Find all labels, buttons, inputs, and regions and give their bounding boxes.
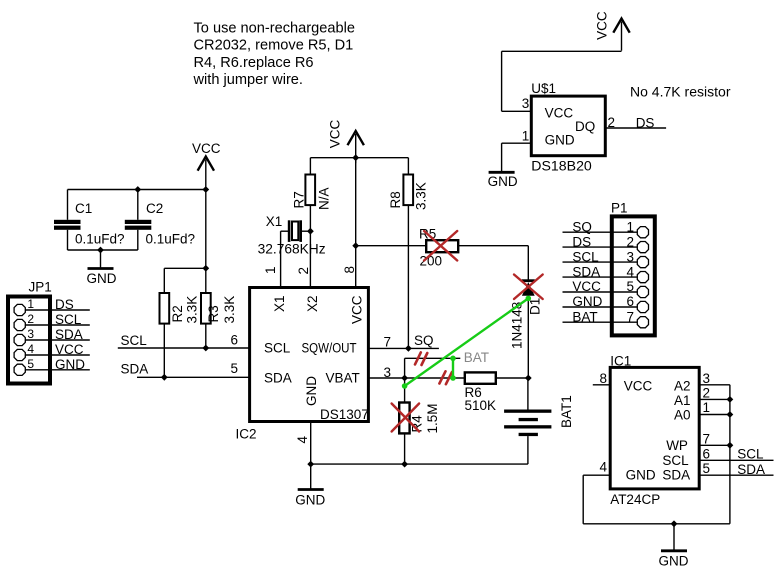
node SQ <box>368 333 439 349</box>
svg-text:GND: GND <box>572 294 602 309</box>
svg-text:VCC: VCC <box>572 279 601 294</box>
wire IC1 pin8 stub <box>593 384 610 386</box>
crystal X1 32.768KHz <box>258 214 326 257</box>
svg-text:510K: 510K <box>465 398 497 413</box>
cut marks on BAT stub <box>415 352 427 365</box>
svg-text:1: 1 <box>522 128 530 143</box>
capacitor C1 <box>54 190 125 251</box>
svg-text:DQ: DQ <box>575 119 595 134</box>
svg-text:3: 3 <box>27 327 34 341</box>
svg-text:0.1uFd?: 0.1uFd? <box>75 232 125 247</box>
P1 pin 5 VCC <box>563 291 638 293</box>
svg-text:2: 2 <box>627 234 635 249</box>
svg-text:7: 7 <box>384 335 392 350</box>
wire IC2 pin1 <box>281 231 288 287</box>
junction R2 branch <box>202 265 209 272</box>
JP1 pin 3 SDA <box>25 339 90 341</box>
svg-text:4: 4 <box>295 436 310 444</box>
svg-text:A2: A2 <box>674 378 691 393</box>
svg-text:4: 4 <box>600 460 608 475</box>
svg-text:2: 2 <box>703 386 711 401</box>
svg-text:8: 8 <box>600 371 608 386</box>
svg-text:3.3K: 3.3K <box>414 182 429 210</box>
svg-text:5: 5 <box>703 461 711 476</box>
svg-text:5: 5 <box>231 361 239 376</box>
ground (U$1) <box>488 172 518 189</box>
svg-text:VCC: VCC <box>55 342 84 357</box>
svg-text:R8: R8 <box>388 191 403 208</box>
wire R3 to SCL <box>205 324 207 348</box>
svg-text:AT24CP: AT24CP <box>610 492 660 507</box>
P1 pin 4 SDA <box>563 276 638 278</box>
wire R8 bottom to SQ junction <box>407 205 409 348</box>
junction A0 <box>727 411 734 418</box>
svg-text:U$1: U$1 <box>531 81 556 96</box>
svg-text:SQ: SQ <box>414 333 434 348</box>
node SCL (left) <box>118 333 250 348</box>
ground (C1/C2) <box>87 250 117 286</box>
cut marks on VBAT wire <box>439 371 452 384</box>
wire R7 top <box>309 158 311 175</box>
svg-text:SCL: SCL <box>662 453 689 468</box>
resistor R7 N/A <box>291 175 331 211</box>
wire IC2 pin8 <box>355 158 357 288</box>
svg-text:VCC: VCC <box>595 11 610 40</box>
svg-text:DS: DS <box>636 116 655 131</box>
svg-text:GND: GND <box>488 174 518 189</box>
junction C2 top <box>134 186 141 193</box>
junction VCC rail <box>202 186 209 193</box>
svg-text:GND: GND <box>304 376 319 406</box>
junction VBAT / D1 / battery <box>525 375 532 382</box>
svg-text:N/A: N/A <box>317 187 332 210</box>
P1 pin 6 GND <box>563 306 638 308</box>
connector JP1 <box>8 280 90 384</box>
svg-text:R4, R6.replace R6: R4, R6.replace R6 <box>194 55 314 71</box>
svg-text:GND: GND <box>626 467 656 482</box>
junction VCC arrow <box>352 154 359 161</box>
junction R4 / bottom rail <box>401 461 408 468</box>
svg-text:SDA: SDA <box>737 462 765 477</box>
svg-text:1: 1 <box>263 266 278 274</box>
JP1 pin 1 DS <box>25 309 90 311</box>
node SCL (right) <box>699 447 773 462</box>
JP1 pin 5 GND <box>25 369 90 371</box>
resistor R2 3.3K <box>160 293 200 324</box>
IC U2 DS1307 (IC2) <box>236 288 369 442</box>
svg-text:3.3K: 3.3K <box>185 296 200 324</box>
P1 pin 7 BAT <box>563 321 638 323</box>
removal X over R5 <box>424 231 457 261</box>
resistor R3 3.3K <box>201 293 237 324</box>
svg-text:4: 4 <box>627 264 635 279</box>
svg-text:4: 4 <box>27 342 34 356</box>
svg-text:6: 6 <box>627 294 635 309</box>
green jumper wire (R6 bypass) <box>450 356 456 381</box>
svg-text:0.1uFd?: 0.1uFd? <box>146 232 196 247</box>
svg-text:VCC: VCC <box>624 378 653 393</box>
svg-text:DS1307: DS1307 <box>320 407 369 422</box>
svg-text:32.768KHz: 32.768KHz <box>258 242 326 257</box>
svg-text:A0: A0 <box>674 408 691 423</box>
svg-text:JP1: JP1 <box>29 280 52 295</box>
wire VCC rail (center) <box>310 157 408 159</box>
svg-text:GND: GND <box>295 493 325 508</box>
svg-text:WP: WP <box>666 438 688 453</box>
ground (IC1) <box>659 524 689 569</box>
svg-text:6: 6 <box>231 333 239 348</box>
wire R2 branch <box>164 268 206 293</box>
svg-text:6: 6 <box>703 446 711 461</box>
removal X over D1 <box>514 275 543 300</box>
svg-text:DS18B20: DS18B20 <box>531 159 592 174</box>
svg-text:SDA: SDA <box>55 327 83 342</box>
junction R2/SDA <box>161 374 168 381</box>
svg-text:C1: C1 <box>75 201 92 216</box>
junction pin4 / bottom rail <box>307 461 314 468</box>
svg-text:SCL: SCL <box>737 447 764 462</box>
resistor R5 200 <box>419 227 458 269</box>
capacitor C2 <box>125 190 195 251</box>
removal X over R4 <box>392 404 420 432</box>
VCC symbol (left) <box>192 141 221 189</box>
node DS (U$1 DQ) <box>605 116 666 131</box>
svg-text:3: 3 <box>627 249 635 264</box>
wire IC1 pin7 WP <box>699 444 730 446</box>
wire IC2 pin2 / R7 bottom <box>309 206 311 288</box>
wire VBAT line <box>368 377 528 379</box>
svg-text:VCC: VCC <box>328 120 343 149</box>
svg-text:VBAT: VBAT <box>326 371 360 386</box>
VCC symbol (center) <box>328 120 364 164</box>
IC U$1 DS18B20 <box>531 81 605 174</box>
svg-text:To use non-rechargeable: To use non-rechargeable <box>194 20 355 36</box>
svg-text:1.5M: 1.5M <box>425 403 440 433</box>
svg-text:GND: GND <box>659 554 689 569</box>
svg-text:2: 2 <box>27 312 34 326</box>
svg-text:GND: GND <box>55 357 85 372</box>
svg-text:SDA: SDA <box>121 362 149 377</box>
junction X1 / pin2 line <box>307 228 314 235</box>
svg-text:DS: DS <box>55 297 74 312</box>
svg-text:C2: C2 <box>146 201 163 216</box>
svg-text:SCL: SCL <box>264 341 291 356</box>
svg-text:IC2: IC2 <box>236 427 257 442</box>
svg-text:2: 2 <box>296 267 311 275</box>
svg-text:SCL: SCL <box>55 312 82 327</box>
resistor R4 1.5M <box>399 378 440 464</box>
svg-text:R7: R7 <box>291 191 306 208</box>
wire bottom rail <box>311 463 528 465</box>
svg-text:X2: X2 <box>305 295 320 312</box>
svg-text:with jumper wire.: with jumper wire. <box>193 72 303 88</box>
svg-text:3: 3 <box>703 371 711 386</box>
svg-text:GND: GND <box>545 133 575 148</box>
P1 pin 3 SCL <box>563 261 638 263</box>
svg-text:BAT: BAT <box>572 309 597 324</box>
P1 pin 1 SQ <box>563 231 638 233</box>
wire C1/C2 top rail <box>68 189 206 191</box>
svg-text:SQ: SQ <box>572 219 592 234</box>
junction pin8 / R5 wire <box>352 242 359 249</box>
junction GND tap <box>97 247 104 254</box>
wire R2 to SDA <box>163 324 165 378</box>
svg-text:3: 3 <box>522 96 530 111</box>
wire U$1 pin1 to GND <box>502 143 532 171</box>
ground (IC2) <box>295 490 325 508</box>
junction SQ / R8 <box>405 345 412 352</box>
svg-text:1: 1 <box>27 297 34 311</box>
svg-text:7: 7 <box>703 431 711 446</box>
svg-text:1: 1 <box>627 219 635 234</box>
svg-text:A1: A1 <box>674 393 691 408</box>
svg-text:1: 1 <box>703 400 711 415</box>
svg-text:VCC: VCC <box>545 106 574 121</box>
JP1 pin 2 SCL <box>25 324 90 326</box>
svg-text:R3: R3 <box>206 305 221 322</box>
svg-text:X1: X1 <box>266 214 283 229</box>
P1 pin 2 DS <box>563 246 638 248</box>
resistor R8 3.3K <box>388 175 429 211</box>
wire IC1 pin1 A0 <box>699 414 730 416</box>
node SDA (right) <box>699 462 773 477</box>
svg-text:SDA: SDA <box>572 264 600 279</box>
wire C1/C2 bottom <box>68 249 138 251</box>
wire IC1 ground loop <box>583 385 730 524</box>
wire R5 left <box>356 245 427 247</box>
svg-text:SCL: SCL <box>572 249 599 264</box>
wire R8 top <box>407 158 409 175</box>
resistor R6 510K <box>465 372 497 413</box>
wire IC1 pin2 A1 <box>699 398 730 400</box>
IC IC1 AT24CP <box>610 354 699 508</box>
svg-text:DS: DS <box>572 234 591 249</box>
wire IC2 pin4 to GND <box>310 422 312 489</box>
svg-text:No 4.7K resistor: No 4.7K resistor <box>630 85 731 100</box>
svg-text:GND: GND <box>87 271 117 286</box>
svg-text:R2: R2 <box>170 305 185 322</box>
wire IC1 pin3 A2 <box>699 384 730 386</box>
svg-text:8: 8 <box>342 266 357 274</box>
svg-text:VCC: VCC <box>192 141 221 156</box>
junction R3/SCL <box>202 345 209 352</box>
VCC symbol (top right) <box>595 11 630 51</box>
diode D1 1N4148 <box>510 279 543 378</box>
green jumper wire (diagonal) <box>402 296 531 389</box>
svg-text:VCC: VCC <box>350 295 365 324</box>
wire R5 right to D1 top <box>458 246 528 280</box>
junction GND stem <box>671 520 678 527</box>
wire BAT stub <box>405 358 461 378</box>
node SDA (left) <box>121 362 250 378</box>
junction VBAT / R4 <box>401 375 408 382</box>
connector P1 <box>563 201 655 336</box>
svg-text:5: 5 <box>27 357 34 371</box>
svg-text:P1: P1 <box>611 201 628 216</box>
svg-text:BAT: BAT <box>464 350 489 365</box>
wire VCC vertical to R3 <box>205 188 207 294</box>
wire VCC to U$1 pin3 <box>502 51 622 111</box>
note text <box>193 20 355 88</box>
junction A1 <box>727 396 734 403</box>
battery BAT1 <box>504 378 574 464</box>
junction WP <box>727 442 734 449</box>
svg-text:SDA: SDA <box>662 467 690 482</box>
svg-text:7: 7 <box>627 309 635 324</box>
svg-text:SQW/OUT: SQW/OUT <box>302 341 357 356</box>
svg-text:BAT1: BAT1 <box>559 395 574 428</box>
svg-text:3.3K: 3.3K <box>222 296 237 324</box>
svg-text:X1: X1 <box>272 295 287 312</box>
svg-text:CR2032, remove R5, D1: CR2032, remove R5, D1 <box>194 38 354 54</box>
JP1 pin 4 VCC <box>25 354 90 356</box>
svg-text:SCL: SCL <box>121 333 148 348</box>
svg-text:5: 5 <box>627 279 635 294</box>
svg-text:SDA: SDA <box>264 371 292 386</box>
